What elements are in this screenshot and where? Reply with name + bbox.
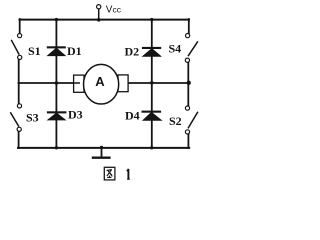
svg-text:S2: S2 [169,114,182,128]
svg-text:D4: D4 [125,109,140,123]
switch S1 blade [11,40,19,55]
svg-text:S1: S1 [28,44,41,58]
wire left middle segment [18,60,20,103]
svg-text:D3: D3 [68,108,83,122]
motor left brush rectangle [74,75,84,92]
wire motor left horizontal [18,82,76,84]
caption character 图 inner strokes [107,170,113,178]
diode D1 triangle [48,48,66,56]
wire left lower segment [18,132,20,148]
node: left motor wire x D1/D3 branch [55,81,59,85]
caption numeral 1 [127,169,129,179]
wire Vcc stub [98,9,100,20]
node: top rail x D2 branch [150,18,153,21]
switch S1 top contact [18,34,22,38]
diode D2 cathode bar [142,47,161,49]
motor right brush rectangle [118,75,128,92]
svg-text:S3: S3 [26,110,39,124]
svg-text:D2: D2 [125,44,140,58]
svg-text:A: A [95,74,105,89]
diode D4 triangle [143,112,162,120]
wire bottom rail [18,147,189,149]
caption character 图 box [104,167,115,180]
wire stub into left brush [74,82,80,84]
node: bottom rail x ground [100,146,103,149]
switch S3 bottom contact [17,127,21,131]
wire D1/D3 branch vertical [55,20,57,148]
wire right middle segment [187,63,189,106]
wire motor right horizontal [127,82,189,84]
svg-text:Vcc: Vcc [106,4,122,15]
motor armature circle U1 [84,64,119,104]
diode D1 cathode bar [47,46,66,48]
diode D4 cathode bar [142,111,162,113]
ground bar [92,156,111,158]
wire top rail [20,19,190,21]
switch S4 bottom contact [185,58,189,62]
node: right motor wire x right wire [187,81,191,85]
switch S3 top contact [17,104,21,108]
switch S2 blade [188,112,198,129]
switch S1 bottom contact [18,55,22,59]
switch S4 top contact [186,34,190,38]
diode D3 cathode bar [47,111,67,113]
switch S3 blade [10,112,19,126]
wire right upper segment [188,19,190,33]
wire D2/D4 branch vertical [151,20,153,148]
diode D3 triangle [48,113,66,120]
diode D2 triangle [143,49,161,57]
node: top rail x D1 branch [55,18,58,21]
switch S4 blade [188,41,198,56]
switch S2 bottom contact [185,130,189,134]
wire right lower segment [187,134,189,148]
node: bottom rail x D4 branch [150,146,153,149]
svg-text:D1: D1 [67,44,82,58]
svg-text:S4: S4 [169,42,182,56]
ground stub [101,148,103,157]
wire left upper segment [19,19,21,33]
Vcc terminal circle [97,5,101,9]
node: right motor wire x D2/D4 branch [150,81,154,85]
node: bottom rail x D3 branch [55,146,58,149]
switch S2 top contact [185,106,189,110]
node: top rail x Vcc [97,18,101,22]
